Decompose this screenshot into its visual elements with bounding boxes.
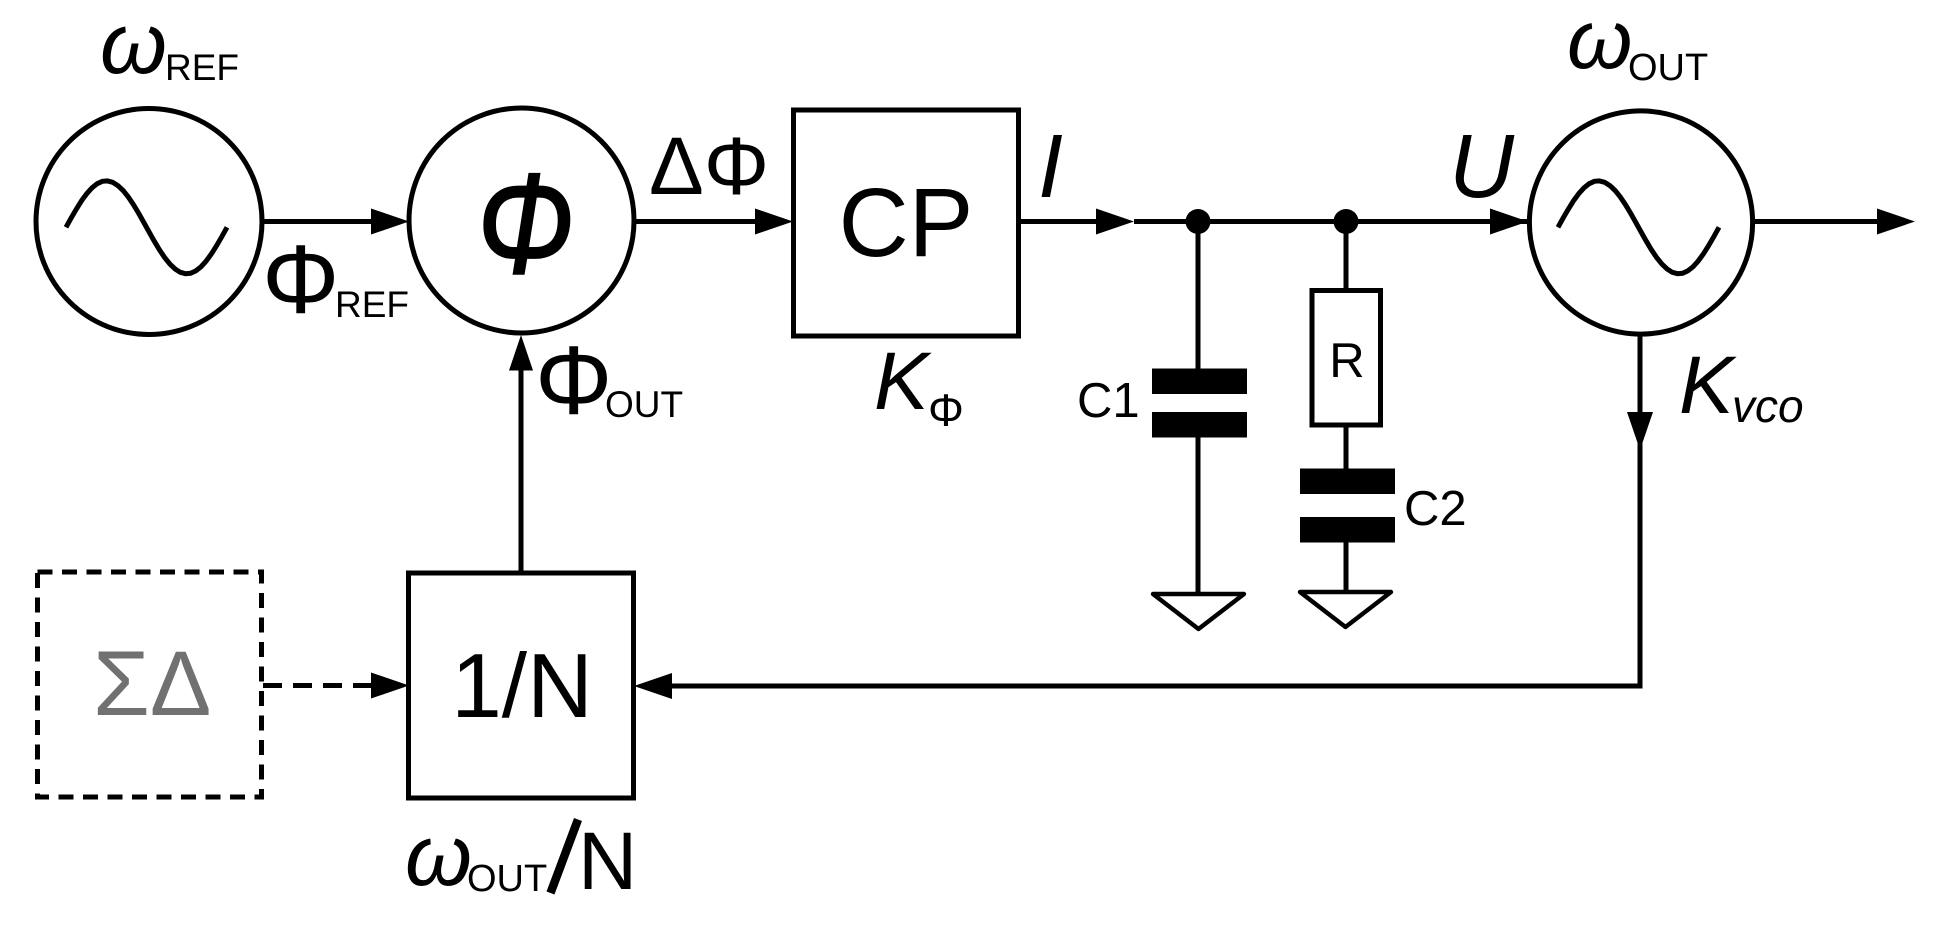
wire C1 to ground <box>1196 436 1201 592</box>
sigma-delta dashed box <box>38 572 262 797</box>
svg-text:ΣΔ: ΣΔ <box>93 633 211 735</box>
label Phi_REF <box>262 225 409 334</box>
svg-text:CP: CP <box>839 168 974 277</box>
wire junction1 down to C1 <box>1196 222 1201 372</box>
svg-text:Φ: Φ <box>477 143 574 303</box>
phase detector U1 circle <box>409 108 634 333</box>
svg-text:REF: REF <box>335 284 409 325</box>
svg-text:Φ: Φ <box>535 326 612 435</box>
label omega_OUT <box>1567 0 1708 89</box>
divider 1/N box <box>409 573 634 798</box>
label K_Phi <box>874 336 964 436</box>
wire C2 to ground <box>1344 542 1349 590</box>
capacitor C1 <box>1152 369 1247 438</box>
svg-text:OUT: OUT <box>467 858 547 900</box>
feedback wire bottom to divider with arrow <box>634 673 672 699</box>
svg-text:OUT: OUT <box>605 384 683 425</box>
label omega_REF <box>100 0 239 92</box>
wire R to C2 <box>1344 425 1349 470</box>
svg-text:Φ: Φ <box>262 225 339 334</box>
charge pump CP box <box>794 110 1019 336</box>
wire divider up to phase detector with arrow <box>509 335 533 572</box>
source oscillator REF circle <box>36 109 262 335</box>
label omega_OUT/N <box>405 808 637 907</box>
svg-text:ω: ω <box>100 0 167 92</box>
VCO circle <box>1529 111 1752 334</box>
wire junction2 down to R <box>1344 222 1349 291</box>
svg-text:OUT: OUT <box>1628 47 1708 89</box>
wire phase detector to CP with arrow <box>634 209 793 235</box>
svg-text:vco: vco <box>1732 380 1804 432</box>
svg-text:R: R <box>1329 334 1364 388</box>
svg-text:C1: C1 <box>1077 374 1140 428</box>
node junction 2 <box>1334 209 1359 234</box>
ground 2 <box>1300 592 1391 627</box>
feedback wire down from VCO with arrow <box>668 335 1653 686</box>
svg-text:ω: ω <box>1567 0 1632 86</box>
node junction 1 <box>1186 209 1211 234</box>
arrow into VCO <box>1490 209 1528 235</box>
svg-text:K: K <box>874 336 932 427</box>
wire CP output with arrow <box>1020 209 1528 235</box>
svg-text:K: K <box>1679 340 1737 431</box>
VCO output arrow <box>1752 209 1915 235</box>
svg-text:1/N: 1/N <box>451 636 593 737</box>
wire REF to phase detector with arrow <box>262 209 409 235</box>
svg-text:REF: REF <box>165 47 239 88</box>
svg-text:C2: C2 <box>1404 482 1467 536</box>
svg-text:N: N <box>578 816 637 907</box>
svg-text:U: U <box>1449 117 1515 217</box>
resistor R <box>1312 291 1381 426</box>
svg-text:Φ: Φ <box>928 385 964 436</box>
label K_vco <box>1679 340 1804 432</box>
capacitor C2 <box>1300 469 1395 543</box>
svg-text:I: I <box>1038 117 1063 217</box>
svg-text:ω: ω <box>405 808 472 904</box>
svg-text:ΔΦ: ΔΦ <box>649 121 769 212</box>
label Phi_OUT <box>535 326 683 435</box>
ground 1 <box>1153 594 1244 629</box>
dashed wire sigma-delta to divider with arrow <box>263 673 409 699</box>
